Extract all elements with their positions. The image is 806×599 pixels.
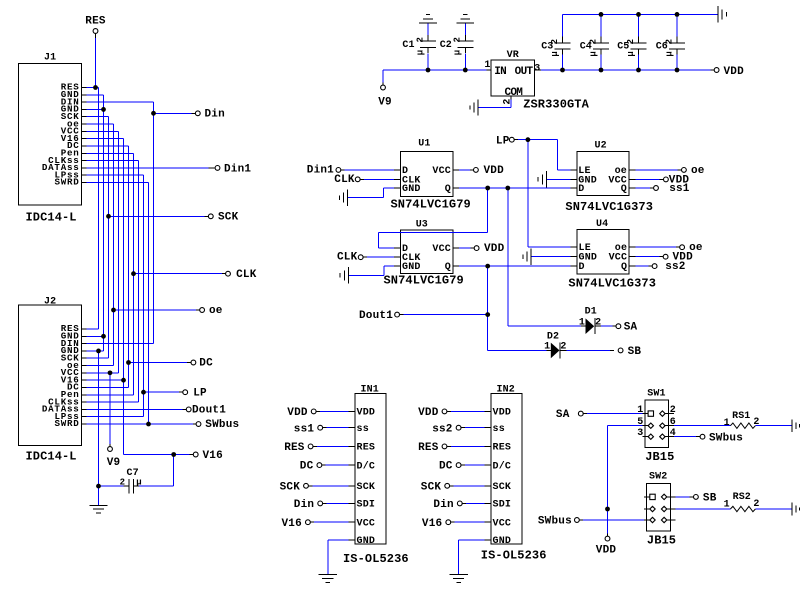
svg-text:U3: U3 [416,220,428,231]
svg-text:U2: U2 [595,141,607,152]
svg-text:SCK: SCK [421,481,442,493]
svg-text:Din: Din [205,109,225,121]
svg-text:CLK: CLK [334,174,355,186]
svg-text:VDD: VDD [418,407,439,419]
svg-text:1: 1 [544,342,550,353]
svg-text:DC: DC [300,461,314,473]
svg-text:SA: SA [556,409,570,421]
svg-text:Din: Din [294,499,314,511]
svg-text:1: 1 [637,405,643,416]
svg-text:Q: Q [621,262,627,273]
svg-text:SCK: SCK [357,482,376,493]
svg-text:µ: µ [453,50,463,55]
svg-text:VDD: VDD [357,408,376,419]
svg-text:VDD: VDD [596,545,617,557]
svg-text:RES: RES [284,442,305,454]
svg-text:2: 2 [753,499,759,510]
svg-text:IDC14-L: IDC14-L [26,211,77,225]
svg-text:D/C: D/C [357,460,376,472]
svg-text:D: D [579,262,585,273]
svg-text:2: 2 [595,317,601,328]
svg-text:µ: µ [588,51,598,56]
svg-text:IN: IN [494,66,506,78]
svg-text:VCC: VCC [493,519,512,530]
svg-text:ss1: ss1 [669,183,690,195]
svg-text:V9: V9 [107,457,121,469]
svg-text:OUT: OUT [515,66,534,78]
svg-text:VCC: VCC [432,244,451,255]
svg-text:IDC14-L: IDC14-L [26,450,77,464]
svg-text:LP: LP [193,387,207,399]
svg-text:J1: J1 [44,53,56,64]
svg-text:GND: GND [402,262,421,273]
svg-text:V16: V16 [203,450,223,462]
svg-text:D/C: D/C [493,460,512,472]
svg-text:oe: oe [209,305,223,317]
svg-text:SDI: SDI [493,500,512,511]
svg-text:SN74LVC1G373: SN74LVC1G373 [565,200,653,214]
svg-text:2: 2 [120,478,125,488]
svg-text:IN2: IN2 [497,384,515,395]
svg-text:SN74LVC1G373: SN74LVC1G373 [568,277,656,291]
svg-text:SCK: SCK [280,481,301,493]
svg-text:2: 2 [453,37,463,42]
svg-text:SCK: SCK [493,482,512,493]
svg-text:DC: DC [199,358,213,370]
svg-text:SWRD: SWRD [54,177,79,188]
svg-text:CLK: CLK [236,269,257,281]
svg-text:µ: µ [136,478,141,488]
svg-text:µ: µ [664,51,674,56]
svg-text:SB: SB [703,493,717,505]
svg-text:SW1: SW1 [647,388,665,399]
svg-text:ss2: ss2 [432,423,452,435]
svg-text:LP: LP [496,135,510,147]
svg-text:RES: RES [85,16,106,28]
svg-text:2: 2 [626,39,636,44]
svg-text:RES: RES [418,442,439,454]
svg-text:SWRD: SWRD [54,418,79,429]
svg-text:CLK: CLK [337,252,358,264]
svg-text:2: 2 [560,342,566,353]
svg-text:3: 3 [637,428,643,439]
svg-text:2: 2 [664,39,674,44]
svg-text:5: 5 [637,417,643,428]
svg-text:IN1: IN1 [361,384,379,395]
svg-text:ss: ss [357,424,369,435]
svg-text:1: 1 [579,317,585,328]
svg-text:RS2: RS2 [733,492,751,503]
svg-text:VDD: VDD [493,408,512,419]
svg-text:GND: GND [357,536,376,547]
svg-text:VDD: VDD [484,165,505,177]
svg-text:IS-OL5236: IS-OL5236 [481,549,547,563]
svg-text:U1: U1 [418,139,430,150]
svg-text:Din: Din [433,499,453,511]
svg-text:V16: V16 [281,518,301,530]
svg-text:Q: Q [445,262,451,273]
svg-text:SW2: SW2 [649,472,667,483]
svg-text:2: 2 [550,39,560,44]
svg-text:Din1: Din1 [307,164,334,176]
svg-text:2: 2 [588,39,598,44]
svg-text:C1: C1 [402,40,414,51]
svg-text:SB: SB [628,346,642,358]
svg-text:1: 1 [484,60,490,71]
svg-text:3: 3 [534,64,540,75]
svg-text:2: 2 [670,405,676,416]
svg-text:RES: RES [357,443,376,454]
svg-text:JB15: JB15 [647,533,676,547]
svg-text:2: 2 [503,99,514,105]
svg-text:Dout1: Dout1 [359,310,393,322]
svg-text:SA: SA [624,322,638,334]
svg-text:4: 4 [670,428,676,439]
svg-text:µ: µ [626,51,636,56]
svg-text:SDI: SDI [357,500,376,511]
svg-text:6: 6 [670,417,676,428]
svg-text:VCC: VCC [432,166,451,177]
svg-text:D1: D1 [585,306,597,317]
svg-text:JB15: JB15 [645,450,674,464]
svg-text:C2: C2 [440,40,452,51]
svg-text:VDD: VDD [484,243,505,255]
svg-text:J2: J2 [44,297,56,308]
svg-text:U4: U4 [596,219,608,230]
svg-text:COM: COM [505,87,524,99]
svg-text:SWbus: SWbus [205,419,239,431]
svg-text:DC: DC [439,461,453,473]
svg-text:VDD: VDD [287,407,308,419]
svg-text:2: 2 [415,37,425,42]
svg-text:V9: V9 [378,97,392,109]
svg-text:Din1: Din1 [224,164,251,176]
svg-text:SN74LVC1G79: SN74LVC1G79 [384,273,464,287]
svg-text:SWbus: SWbus [538,516,572,528]
svg-text:RES: RES [493,443,512,454]
svg-text:µ: µ [415,50,425,55]
svg-text:VCC: VCC [357,519,376,530]
svg-text:D: D [578,184,584,195]
svg-text:Q: Q [621,184,627,195]
svg-text:IS-OL5236: IS-OL5236 [343,552,409,566]
svg-text:Q: Q [445,184,451,195]
svg-text:GND: GND [493,536,512,547]
svg-text:RS1: RS1 [732,411,750,422]
svg-text:GND: GND [402,184,421,195]
svg-text:oe: oe [691,165,705,177]
svg-text:ss: ss [493,424,505,435]
svg-text:1: 1 [724,418,730,429]
svg-text:µ: µ [550,51,560,56]
svg-text:V16: V16 [422,518,442,530]
svg-text:1: 1 [724,500,730,511]
svg-text:ss1: ss1 [294,423,315,435]
svg-text:VR: VR [507,50,519,61]
svg-text:SN74LVC1G79: SN74LVC1G79 [391,198,471,212]
svg-text:ZSR330GTA: ZSR330GTA [523,98,589,112]
svg-text:Dout1: Dout1 [192,405,226,417]
svg-text:ss2: ss2 [665,261,685,273]
svg-text:SWbus: SWbus [709,432,743,444]
svg-text:SCK: SCK [218,212,239,224]
svg-text:VDD: VDD [724,66,745,78]
